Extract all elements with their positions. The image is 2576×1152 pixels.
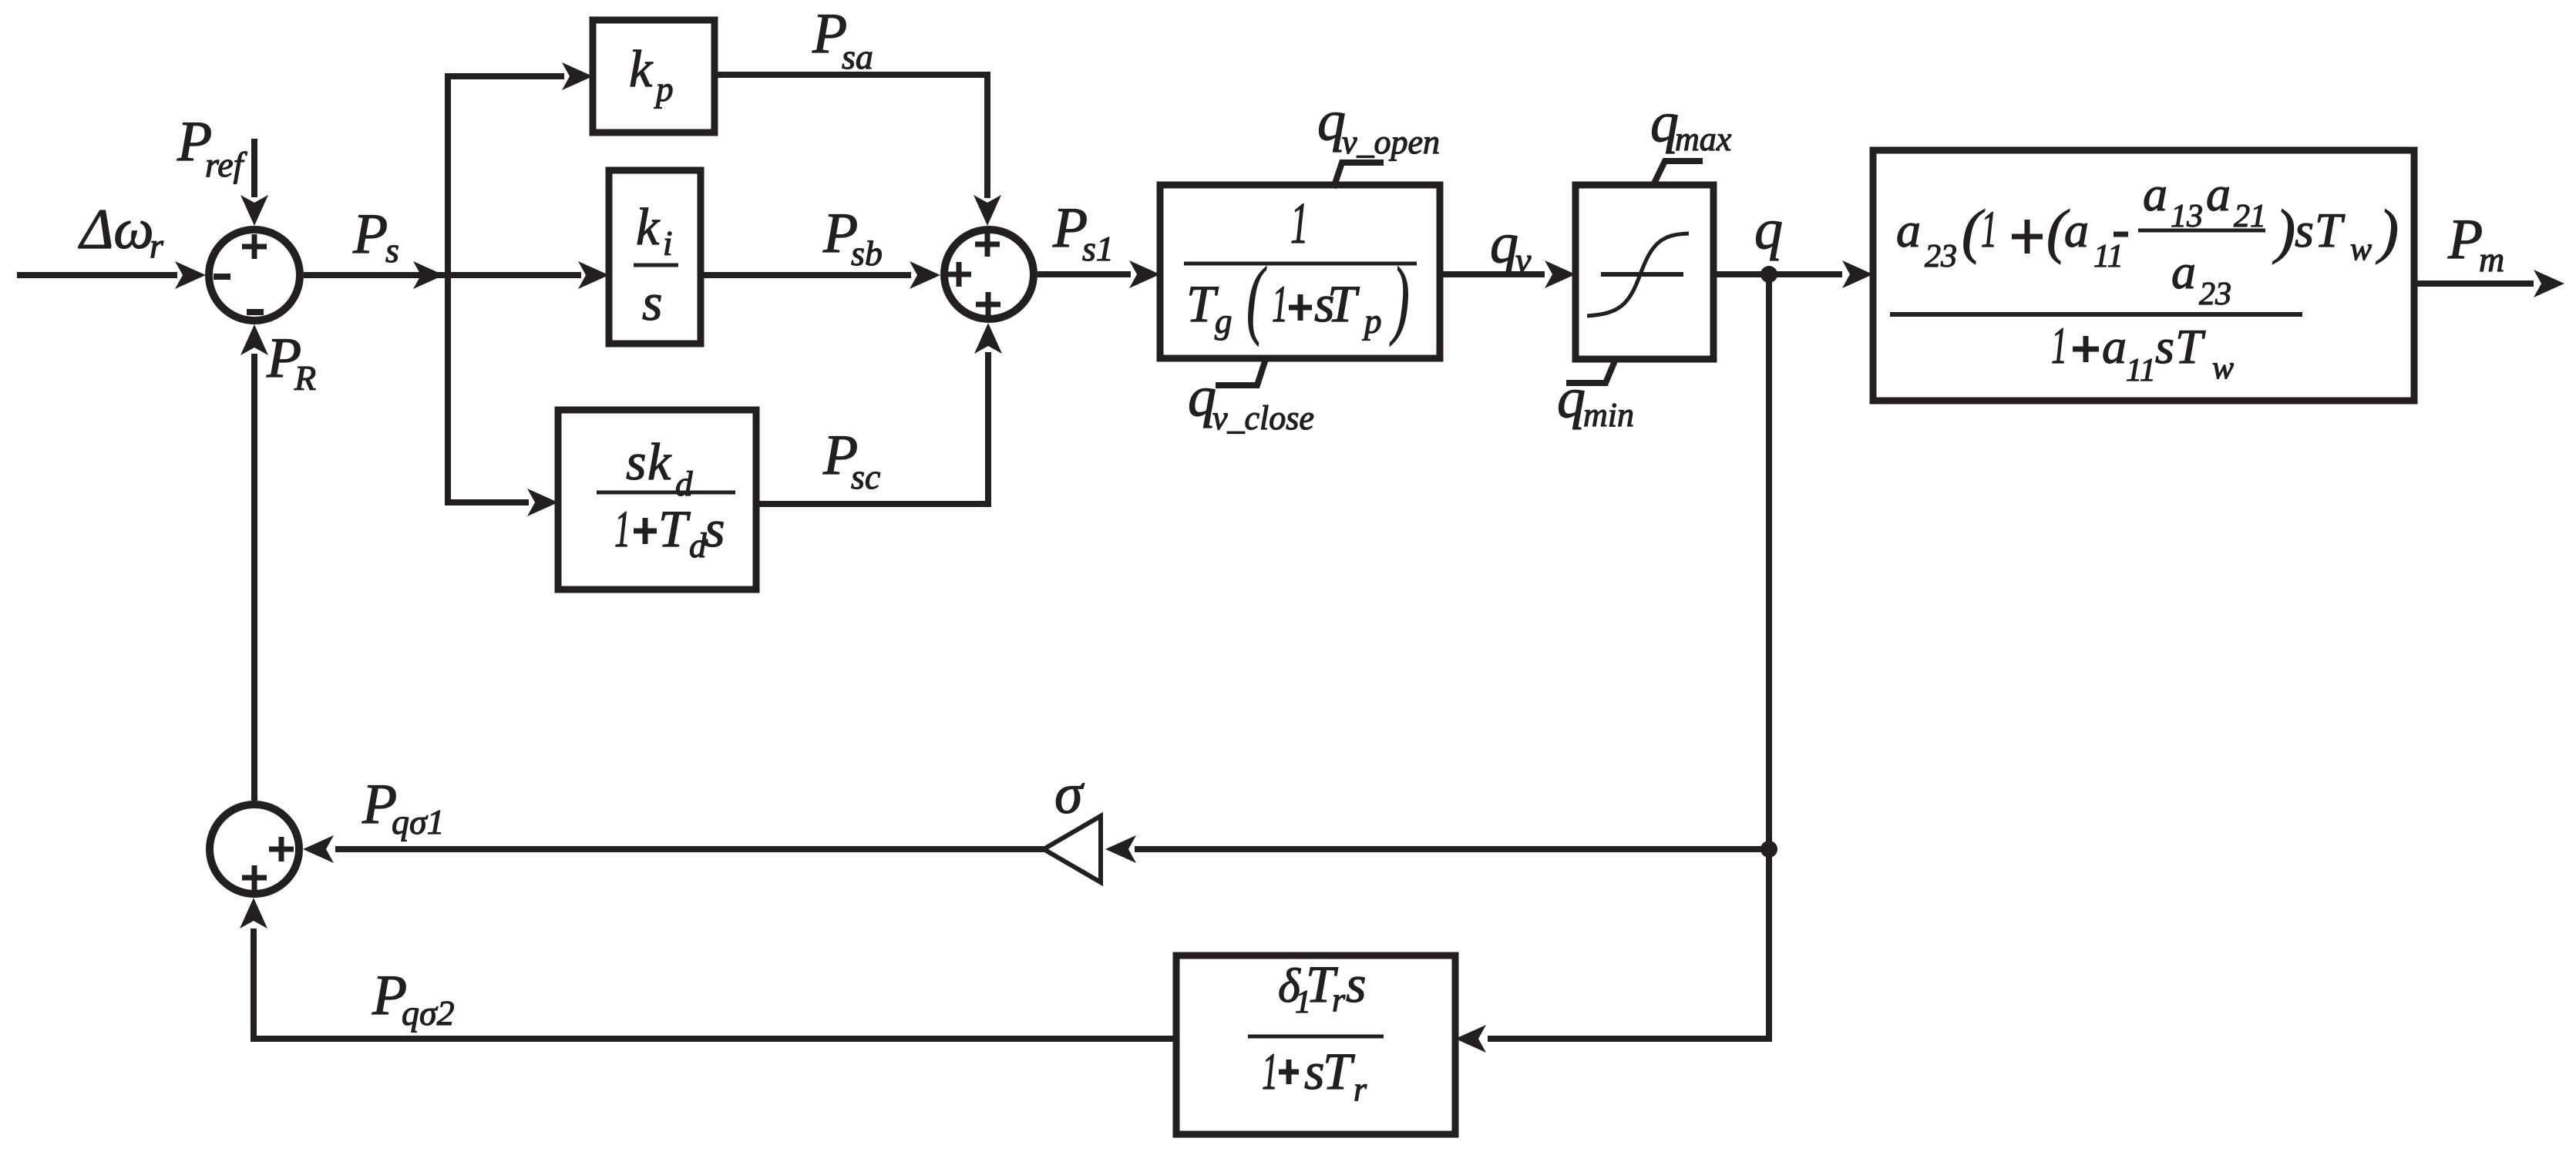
svg-text:qσ1: qσ1 xyxy=(392,802,445,841)
svg-text:T: T xyxy=(2315,203,2346,257)
svg-text:w: w xyxy=(2212,351,2234,386)
svg-text:s: s xyxy=(2295,203,2314,257)
label qv xyxy=(1490,212,1532,280)
svg-text:a: a xyxy=(2064,203,2089,257)
arrowhead Pref into S1 xyxy=(240,195,268,226)
svg-text:v_open: v_open xyxy=(1342,123,1440,161)
wire Pref xyxy=(251,139,257,197)
label delta-omega-r xyxy=(78,198,164,265)
svg-text:s: s xyxy=(2155,319,2174,374)
svg-text:v: v xyxy=(1515,240,1532,280)
wire Psc xyxy=(756,352,988,504)
svg-text:s: s xyxy=(642,273,662,331)
saturation mid line xyxy=(1601,272,1683,277)
svg-text:): ) xyxy=(2376,197,2399,264)
label 1+Tds denominator xyxy=(614,499,725,565)
S3 plus bottom xyxy=(242,865,267,890)
arrowhead into S1 xyxy=(175,261,206,289)
svg-text:p: p xyxy=(1362,302,1382,341)
arrowhead into delta block xyxy=(1455,1025,1486,1053)
callout qmin xyxy=(1566,359,1616,383)
callout qv_open xyxy=(1333,163,1384,188)
water numerator main xyxy=(1896,197,2128,274)
svg-text:i: i xyxy=(663,224,673,263)
svg-text:ref: ref xyxy=(205,145,248,184)
S1 plus top xyxy=(242,234,267,259)
svg-text:d: d xyxy=(675,465,693,503)
label Psb xyxy=(822,202,883,273)
svg-text:a: a xyxy=(2171,244,2196,299)
fraction bar skd xyxy=(597,491,735,495)
callout qv_close xyxy=(1216,359,1266,385)
svg-text:qσ2: qσ2 xyxy=(402,993,455,1033)
summing junction S2 xyxy=(944,230,1034,319)
svg-text:m: m xyxy=(2479,240,2504,279)
wire into kp xyxy=(445,73,564,79)
arrowhead into water block xyxy=(1842,260,1873,288)
gain sigma triangle xyxy=(1044,816,1101,882)
delta numerator xyxy=(1278,955,1366,1020)
svg-text:1: 1 xyxy=(1272,276,1288,334)
svg-text:T: T xyxy=(1186,274,1219,333)
label qv_open xyxy=(1317,89,1440,161)
svg-text:1: 1 xyxy=(1262,1043,1278,1101)
water denominator xyxy=(2051,317,2234,388)
svg-text:): ) xyxy=(2272,197,2295,264)
label Psa xyxy=(812,2,873,76)
fraction bar ki/s xyxy=(634,264,678,267)
svg-text:k: k xyxy=(636,197,661,256)
svg-text:Δω: Δω xyxy=(78,198,154,261)
svg-text:w: w xyxy=(2350,232,2372,267)
svg-text:sc: sc xyxy=(851,457,880,496)
svg-text:s: s xyxy=(1346,955,1366,1013)
block ki over s xyxy=(609,170,701,344)
arrowhead Pm xyxy=(2534,270,2564,297)
arrowhead into saturation xyxy=(1545,260,1576,288)
svg-text:T: T xyxy=(1323,1042,1355,1100)
arrowhead into skd xyxy=(527,489,558,516)
svg-text:min: min xyxy=(1583,396,1634,434)
wire Psa xyxy=(715,75,987,198)
wire Pqs2 return xyxy=(254,929,1176,1039)
label qmax xyxy=(1650,91,1732,158)
saturation sigmoid xyxy=(1587,233,1689,316)
svg-text:max: max xyxy=(1675,120,1732,158)
svg-text:r: r xyxy=(1354,1070,1367,1108)
block delta Tr xyxy=(1176,956,1455,1134)
wire qv xyxy=(1440,271,1545,277)
svg-text:a: a xyxy=(1896,203,1921,257)
svg-text:P: P xyxy=(352,203,388,266)
label kp xyxy=(629,39,674,109)
wire q xyxy=(1713,271,1842,277)
water numerator tail xyxy=(2272,197,2399,267)
label qmin xyxy=(1557,367,1634,434)
svg-text:23: 23 xyxy=(2199,277,2231,312)
arrowhead Pqs1 into S3 xyxy=(303,835,334,863)
wire sigma out xyxy=(335,846,1044,852)
water main fraction bar xyxy=(1890,312,2302,317)
svg-text:T: T xyxy=(2175,319,2206,374)
block saturation xyxy=(1576,185,1713,359)
arrowhead PR into S1 xyxy=(240,324,268,355)
svg-text:s: s xyxy=(626,432,646,491)
node q feedback dot xyxy=(1760,841,1777,858)
label skd numerator xyxy=(626,432,693,503)
svg-text:sa: sa xyxy=(842,37,873,76)
delta denominator xyxy=(1262,1042,1367,1108)
water small fraction bar xyxy=(2138,229,2265,233)
summing junction S1 xyxy=(209,230,300,321)
summing junction S3 xyxy=(210,804,299,894)
label Pqs2 xyxy=(372,964,455,1033)
svg-text:v_close: v_close xyxy=(1212,399,1314,437)
block governor xyxy=(1160,185,1440,358)
svg-text:q: q xyxy=(1490,212,1518,275)
label Psc xyxy=(822,424,880,496)
wire sigma feedback xyxy=(1135,846,1769,852)
svg-text:T: T xyxy=(658,499,691,558)
svg-text:P: P xyxy=(2447,208,2483,271)
wire branch vertical xyxy=(445,73,451,505)
svg-text:q: q xyxy=(1557,367,1586,430)
svg-text:a: a xyxy=(2206,166,2231,221)
svg-text:r: r xyxy=(1332,981,1346,1019)
svg-text:R: R xyxy=(294,358,316,398)
label Pqs1 xyxy=(362,773,445,841)
svg-text:s: s xyxy=(385,230,399,270)
label qv_close xyxy=(1188,365,1314,437)
arrowhead Psc into S2 xyxy=(974,323,1002,354)
svg-text:11: 11 xyxy=(2093,239,2124,274)
wire PR feedback xyxy=(251,354,257,801)
water small fraction numerator xyxy=(2143,166,2266,234)
label PR xyxy=(266,327,316,398)
arrowhead into governor block xyxy=(1129,260,1160,288)
svg-text:1: 1 xyxy=(1981,201,1997,259)
svg-text:s1: s1 xyxy=(1082,229,1114,268)
block water hammer xyxy=(1873,150,2414,401)
label ki numerator xyxy=(636,197,673,263)
label Pm xyxy=(2447,208,2504,279)
S2 plus top xyxy=(975,232,1000,257)
callout qmax xyxy=(1653,161,1703,186)
S1 minus bottom xyxy=(247,309,264,315)
svg-text:q: q xyxy=(1754,198,1783,261)
svg-text:T: T xyxy=(1327,274,1360,333)
wire Psb xyxy=(701,272,911,278)
svg-text:k: k xyxy=(629,39,654,98)
wire Pm xyxy=(2413,280,2534,287)
arrowhead Psa into S2 xyxy=(974,195,1001,226)
wire q feedback down xyxy=(1488,274,1769,1039)
arrowhead into kp xyxy=(562,62,593,90)
wire input xyxy=(17,272,177,278)
svg-text:s: s xyxy=(705,499,725,558)
svg-text:11: 11 xyxy=(2126,353,2156,388)
svg-text:r: r xyxy=(150,226,164,265)
S2 plus bottom xyxy=(976,292,1000,317)
svg-text:s: s xyxy=(1304,1042,1324,1100)
arrowhead Pqs2 into S3 xyxy=(240,898,267,929)
water small fraction denominator xyxy=(2171,244,2231,312)
governor fraction bar xyxy=(1184,262,1417,266)
svg-text:g: g xyxy=(1215,302,1233,341)
label Pref xyxy=(177,110,248,184)
arrowhead into ki xyxy=(578,261,609,289)
svg-text:k: k xyxy=(647,432,672,491)
wire Ps1 xyxy=(1037,271,1131,277)
S1 minus left xyxy=(214,274,230,280)
svg-text:): ) xyxy=(1389,250,1409,347)
wire Ps xyxy=(304,272,581,278)
svg-text:1: 1 xyxy=(1290,191,1309,256)
wire into skd xyxy=(445,499,529,505)
label Ps xyxy=(352,203,399,270)
svg-text:sb: sb xyxy=(851,233,883,273)
svg-text:a: a xyxy=(2143,166,2167,221)
svg-text:a: a xyxy=(2102,319,2127,374)
svg-text:σ: σ xyxy=(1054,763,1085,826)
label Ps1 xyxy=(1052,196,1114,268)
svg-text:1: 1 xyxy=(2051,317,2067,375)
arrowhead Psb into S2 xyxy=(910,261,940,289)
block skd xyxy=(558,410,756,589)
arrowhead into sigma triangle xyxy=(1105,835,1136,863)
block kp xyxy=(593,20,715,133)
svg-text:1: 1 xyxy=(614,501,631,559)
node q dot xyxy=(1760,266,1777,283)
svg-text:23: 23 xyxy=(1925,239,1957,274)
governor denominator xyxy=(1186,250,1410,347)
S2 plus left xyxy=(947,262,971,287)
delta fraction bar xyxy=(1248,1035,1384,1039)
S3 plus right xyxy=(269,837,294,861)
arrowhead Ps at branch xyxy=(413,261,444,289)
svg-text:p: p xyxy=(654,70,674,109)
